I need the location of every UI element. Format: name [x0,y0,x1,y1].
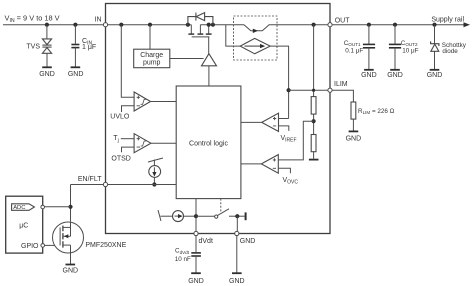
ground RLIM [349,130,359,132]
node supply arrow [464,22,471,27]
svg-text:Charge: Charge [140,52,163,59]
node EN junction [152,182,156,186]
node CIN tap [73,23,77,27]
node schottky tap [432,23,436,27]
node IREF [287,88,291,92]
resistor R1 [311,97,316,115]
capacitor COUT1 [363,44,375,47]
wire to ILIM pin [289,89,328,91]
svg-text:OUT: OUT [335,18,351,25]
wire COUT1 [368,25,370,44]
ground Q2 [66,264,76,266]
current source dVdt [158,210,196,222]
svg-text:diode: diode [442,48,458,55]
svg-text:EN/FLT: EN/FLT [78,176,102,183]
node COUT2 tap [393,23,397,27]
wire sense neck [244,25,328,31]
block control logic [176,86,241,199]
svg-text:GPIO: GPIO [21,243,39,250]
wire COUT2 [394,25,396,44]
resistor R2 [311,135,316,152]
switch discharge [215,215,218,218]
ground schottky [430,69,440,71]
wire COUT1 bottom [368,48,370,69]
svg-text:ADC: ADC [13,205,25,211]
diode schottky [431,41,439,51]
wire driver to control logic [208,66,210,86]
label ADC tag [12,204,35,211]
node divider mid [312,119,316,123]
wire GND pin down [236,236,238,273]
ground COUT1 [364,69,374,71]
svg-text:GND: GND [188,278,204,285]
op-amp UVLO [134,92,150,111]
wire divider bottom [313,152,315,159]
wire VOVC lower input stub [278,168,290,173]
wire divider middle [313,114,315,134]
op-amp OTSD [134,134,151,153]
node ADC junction [68,205,72,209]
node divider ILIM crossing [312,89,315,92]
ground CIN [71,66,81,68]
wire OUT rail [332,24,464,26]
wire diamond to ILIM node [270,46,288,118]
capacitor COUT2 [389,44,401,47]
svg-text:GND: GND [68,71,84,78]
wire ADC [45,206,71,208]
ground divider [309,159,319,161]
wire VOVC output [241,163,261,165]
pin ADC [41,205,45,209]
svg-text:Control logic: Control logic [189,140,228,147]
resistor RLIM [351,102,356,119]
wire OTSD upper input [121,138,134,140]
svg-text:Supply rail: Supply rail [431,17,464,24]
chip outline box [106,4,331,234]
pin ILIM [328,88,332,92]
pin GPIO [41,244,45,248]
node sense arrow [253,29,258,33]
svg-text:10 nF: 10 nF [175,256,191,263]
svg-text:dVdt: dVdt [199,238,213,245]
wire OTSD output [151,142,176,144]
wire GPIO to gate [45,244,61,246]
svg-text:UVLO: UVLO [110,113,130,120]
node GND junction [235,214,239,218]
svg-text:GND: GND [361,72,377,79]
node charge pump tap [148,23,152,27]
block charge pump [134,49,170,67]
svg-text:GND: GND [63,267,79,274]
block microcontroller [6,196,43,253]
svg-text:GND: GND [387,72,403,79]
wire schottky top [434,25,436,44]
pin dVdt [194,231,198,235]
svg-text:OTSD: OTSD [111,156,130,163]
transistor Q2 PMF250XNE [53,222,84,264]
wire dashed switch control [220,199,222,213]
wire dVdt vertical [195,199,197,232]
diode TVS [42,39,51,53]
wire TVS top [46,25,48,39]
svg-text:GND: GND [346,135,362,142]
wire UVLO input feed [121,25,134,98]
ground CdVdt [191,272,201,274]
svg-text:GND: GND [39,71,55,78]
svg-text:ILIM: ILIM [334,81,348,88]
svg-text:pump: pump [143,60,161,67]
node Q1 drain [186,23,190,27]
svg-text:μC: μC [19,222,28,229]
wire UVLO lower input stub [122,106,135,112]
op-amp gate driver [202,54,217,66]
diode body diode [188,13,213,25]
wire VIREF output [241,121,262,123]
pin IN [103,23,107,27]
capacitor CdVdt [191,253,201,256]
wire COUT2 bottom [394,48,396,69]
pin EN/FLT [103,182,107,186]
wire EN to uC drop [70,185,72,222]
wire GND pin vertical [236,216,238,231]
wire ILIM to RLIM [332,90,353,102]
svg-text:TVS: TVS [26,44,40,51]
svg-text:GND: GND [427,72,443,79]
wire TVS bottom [46,53,48,67]
ground COUT2 [390,69,400,71]
wire EN/FLT [71,184,177,186]
source current mirror diamond [240,38,270,53]
wire OTSD lower input stub [122,147,135,152]
current source EN pull-up [148,158,163,185]
svg-text:0.1 μF: 0.1 μF [345,48,363,55]
op-amp VOVC [261,155,278,174]
wire CIN bottom [74,48,76,67]
wire VIREF upper input [279,118,289,120]
wire schottky bottom [434,51,436,69]
node body diode right leg [211,23,215,27]
wire UVLO output [151,101,177,103]
svg-text:IN: IN [95,17,102,24]
node sense branch [226,25,240,46]
box current sense (dashed) [234,16,278,60]
wire switch to GND node [229,215,245,217]
node Q1 source [207,23,211,27]
wire to discharge switch [196,215,214,217]
wire IN rail [3,24,244,26]
node UVLO tap [119,23,123,27]
ground GND pin [232,272,242,274]
svg-text:GND: GND [240,238,256,245]
svg-text:10 μF: 10 μF [402,48,418,55]
transistor Q1 pass MOSFET [188,25,211,54]
wire charge pump feed [149,25,151,50]
pin GND [235,231,239,235]
svg-text:1 μF: 1 μF [82,44,96,51]
node TVS tap [45,23,49,27]
node OUT divider tap [312,23,316,27]
wire CIN top [74,25,76,44]
svg-text:GND: GND [229,278,245,285]
capacitor CIN [71,45,79,48]
node COUT1 tap [367,23,371,27]
svg-text:PMF250XNE: PMF250XNE [85,242,126,249]
op-amp VIREF [262,113,279,131]
wire divider top [313,25,315,97]
node dVdt junction [194,214,198,218]
wire RLIM bottom [352,119,354,131]
wire charge pump output [170,58,204,60]
wire VIREF lower input stub [279,126,289,131]
pin OUT [328,23,332,27]
wire CdVdt [195,236,197,253]
wire mid to VOVC [278,121,313,160]
wire CdVdt bottom [195,256,197,273]
ground TVS [42,66,52,68]
capacitor plate internal [245,212,247,220]
